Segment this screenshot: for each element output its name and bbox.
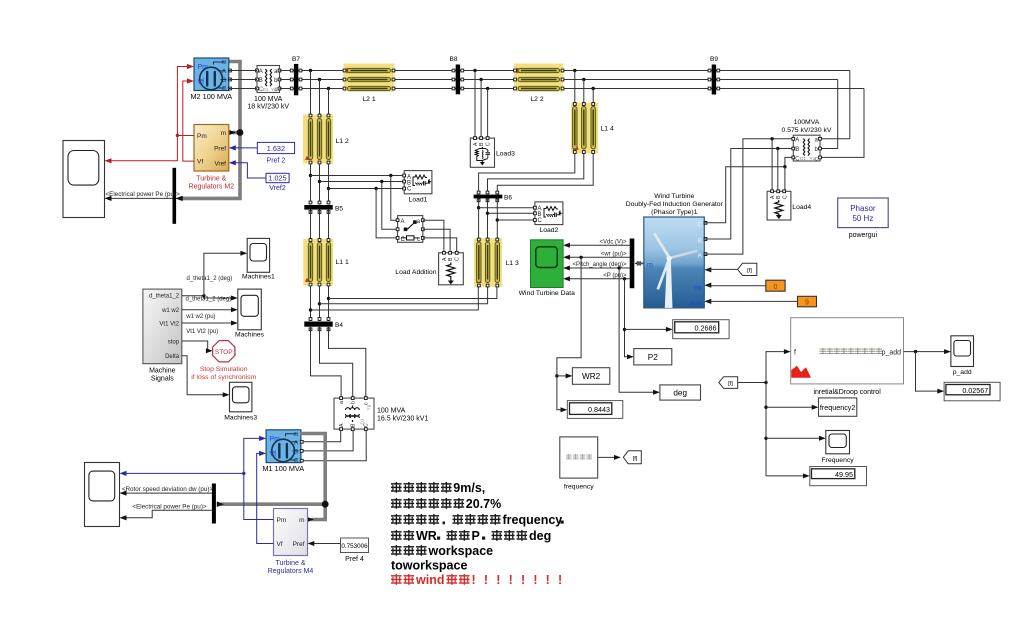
bus selector bar for M2 scope xyxy=(173,168,177,224)
load Load2 xyxy=(534,202,563,234)
svg-text:w1 w2: w1 w2 xyxy=(161,308,180,314)
svg-text:frequency: frequency xyxy=(564,484,594,491)
transformer 100MVA 0.575 kV/230 kV xyxy=(782,119,832,162)
svg-text:100MVA: 100MVA xyxy=(794,119,820,126)
svg-text:L1 4: L1 4 xyxy=(601,126,614,133)
svg-text:B: B xyxy=(479,142,485,146)
svg-text:Wind Turbine Data: Wind Turbine Data xyxy=(519,290,576,297)
constant trip 0 xyxy=(708,280,785,291)
svg-text:0.575 kV/230 kV: 0.575 kV/230 kV xyxy=(782,127,832,134)
svg-text:B: B xyxy=(259,78,263,84)
breaker (3-phase) xyxy=(396,216,424,243)
svg-text:Regulators M4: Regulators M4 xyxy=(268,568,314,575)
wire: blue Pm from M4 to M1 with scope branch xyxy=(120,436,274,520)
wire: Vt1 Vt2 to Machines xyxy=(182,321,238,336)
svg-text:Wind Turbine: Wind Turbine xyxy=(654,193,694,200)
wire: electrical power Pe to scope xyxy=(120,503,212,520)
svg-text:frequency: frequency xyxy=(503,513,563,527)
to-workspace WR2 xyxy=(572,368,609,385)
distributed line L1 3 (vertical) xyxy=(474,238,519,287)
svg-text:Load1: Load1 xyxy=(409,197,428,204)
svg-text:p_add: p_add xyxy=(953,369,972,376)
svg-text:Load Addition: Load Addition xyxy=(395,269,436,276)
svg-text:L1 3: L1 3 xyxy=(506,260,519,267)
svg-text:Yg: Yg xyxy=(366,404,371,410)
svg-text:Delta: Delta xyxy=(165,354,180,360)
svg-text:Machines: Machines xyxy=(235,332,265,339)
wire: B4 to plant transformer xyxy=(311,327,366,398)
powergui Phasor 50 Hz xyxy=(838,198,889,239)
scope rotor speed / electrical power M1 xyxy=(85,463,120,527)
svg-text:A: A xyxy=(770,195,776,199)
bus B5 xyxy=(304,201,343,213)
bus B9 xyxy=(708,56,720,95)
svg-text:Machines3: Machines3 xyxy=(224,415,257,422)
svg-text:A: A xyxy=(259,69,263,75)
svg-text:B5: B5 xyxy=(335,206,343,213)
svg-text:1.025: 1.025 xyxy=(268,174,286,183)
to-workspace deg xyxy=(660,385,701,400)
wire: line C down to wind transformer c xyxy=(820,89,864,158)
svg-text:A: A xyxy=(294,440,298,446)
wire: thick measurement bus from machine M2 m-port down to scope selector xyxy=(176,62,243,201)
wire: DFIG B to transformer xyxy=(704,147,793,239)
svg-text:Pref 2: Pref 2 xyxy=(267,157,286,164)
annotation: Chinese notes xyxy=(391,481,570,587)
line 3: for comparison set frequency xyxy=(391,514,501,525)
scope Machines1 xyxy=(242,238,275,280)
svg-text:trip: trip xyxy=(694,286,703,292)
load Load4 xyxy=(767,190,811,220)
svg-text:Phasor: Phasor xyxy=(850,204,876,213)
wire: wr to Wind Turbine Data xyxy=(563,251,630,259)
svg-text:deg: deg xyxy=(673,389,687,398)
svg-text:C: C xyxy=(783,195,789,199)
svg-text:WR: WR xyxy=(416,529,437,543)
wire: L1 1 down to B4 xyxy=(311,286,329,322)
subsystem Turbine & Regulators M2 xyxy=(189,125,235,191)
scope Machines xyxy=(235,289,265,338)
svg-text:Pref: Pref xyxy=(293,541,305,548)
bus B7 xyxy=(290,56,302,95)
scope Machines3 xyxy=(224,382,257,421)
constant Vref2 (1.025) xyxy=(266,173,289,192)
svg-text:Pm: Pm xyxy=(198,64,209,71)
to-workspace frequency2 xyxy=(819,398,857,416)
svg-text:M1 100 MVA: M1 100 MVA xyxy=(262,464,304,473)
svg-text:w1 w2 (pu): w1 w2 (pu) xyxy=(185,314,215,320)
svg-text:C: C xyxy=(407,187,412,193)
svg-text:a: a xyxy=(339,401,345,404)
transformer 100 MVA 18 kV/230 kV xyxy=(247,66,289,111)
svg-text:B7: B7 xyxy=(292,56,300,63)
wire: m from DFIG to bus selector xyxy=(634,261,644,266)
svg-text:L1 1: L1 1 xyxy=(336,259,349,266)
svg-text:A: A xyxy=(401,219,405,225)
svg-text:49.95: 49.95 xyxy=(835,470,853,479)
svg-text:d_theta1_2 (deg): d_theta1_2 (deg) xyxy=(186,297,232,303)
display 0.2686 xyxy=(673,320,729,339)
wind turbine DFIG block xyxy=(626,193,724,308)
svg-text:Load2: Load2 xyxy=(539,227,558,234)
svg-text:A: A xyxy=(222,69,226,75)
bus selector for wind turbine measurements xyxy=(630,239,635,289)
svg-text:D1: D1 xyxy=(800,156,806,161)
subsystem frequency (measure) xyxy=(560,437,598,491)
svg-text:18 kV/230 kV: 18 kV/230 kV xyxy=(247,104,289,111)
svg-text:B6: B6 xyxy=(504,194,512,201)
svg-text:inretial&Droop control: inretial&Droop control xyxy=(813,389,881,396)
display 0.02567 xyxy=(944,382,1000,401)
node taps to L1 4 xyxy=(573,69,595,103)
svg-text:0.753006: 0.753006 xyxy=(341,543,368,550)
distributed line L1 2 (vertical) xyxy=(303,114,349,164)
svg-text:m: m xyxy=(299,517,304,524)
wire: red Pm from regulator to machine M2 and branch to scope xyxy=(105,64,195,163)
from tag [f] to DFIG xyxy=(708,263,757,275)
transformer 100 MVA 16.5 kV/230 kV1 xyxy=(334,397,428,431)
svg-text:<Vdc (V)>: <Vdc (V)> xyxy=(599,239,627,245)
subsystem Machine Signals xyxy=(143,289,182,382)
svg-text:B8: B8 xyxy=(450,56,458,63)
wire: wr tap to WR2 and display 0.8443 xyxy=(555,256,583,413)
svg-text:B4: B4 xyxy=(335,322,343,329)
wire: machine M2 to transformer 3-phase xyxy=(229,71,258,89)
svg-text:Yg: Yg xyxy=(271,87,277,92)
wire: P to Wind Turbine Data xyxy=(563,273,630,282)
scope Wind Turbine Data xyxy=(519,240,576,297)
wire: d_theta1_2 to Machines and Machines1 xyxy=(182,251,247,303)
wire: p_add output to scope and display xyxy=(904,349,951,394)
svg-text:0.02567: 0.02567 xyxy=(962,386,988,395)
svg-text:stop: stop xyxy=(168,340,180,346)
svg-text:Vf: Vf xyxy=(270,451,277,458)
line 1: wind speed set to 9m/s xyxy=(391,482,452,493)
svg-text:d_theta1_2: d_theta1_2 xyxy=(149,294,180,300)
svg-text:D1: D1 xyxy=(263,87,269,92)
svg-text:Vt1 Vt2: Vt1 Vt2 xyxy=(159,322,179,328)
svg-text:Load4: Load4 xyxy=(792,204,811,211)
svg-text:c: c xyxy=(364,402,370,405)
svg-text:B: B xyxy=(776,195,782,199)
wire: B5 down to L1 1 xyxy=(311,210,329,240)
wire: M1 to plant transformer 3-phase xyxy=(302,431,367,461)
svg-text:f: f xyxy=(794,349,796,356)
svg-text:P: P xyxy=(472,529,480,543)
svg-text:p_add: p_add xyxy=(882,349,902,356)
svg-text:D1: D1 xyxy=(360,418,365,424)
load Load3 xyxy=(470,137,515,168)
svg-text:[f]: [f] xyxy=(728,381,733,387)
svg-text:C: C xyxy=(538,218,543,224)
machine M1 100 MVA xyxy=(262,430,304,473)
svg-text:Doubly-Fed Induction Generator: Doubly-Fed Induction Generator xyxy=(626,201,724,208)
svg-text:C: C xyxy=(697,221,702,228)
svg-text:A: A xyxy=(442,257,448,261)
line 2: wind penetration 20.7% xyxy=(391,498,464,509)
svg-text:[f]: [f] xyxy=(747,268,752,274)
svg-text:Stop Simulation: Stop Simulation xyxy=(200,366,248,373)
distributed line L1 4 (vertical) xyxy=(571,103,614,154)
svg-text:50 Hz: 50 Hz xyxy=(852,214,873,223)
svg-text:Turbine &: Turbine & xyxy=(275,560,305,567)
svg-text:0: 0 xyxy=(774,284,778,291)
bus B8 xyxy=(450,56,464,94)
wire: breaker to Load Addition xyxy=(423,220,457,253)
svg-text:C: C xyxy=(455,257,461,261)
wire: taps down to Load4 xyxy=(772,139,785,192)
line 4: speed WR, power P, pitch deg xyxy=(391,530,414,541)
distributed line L2 1 xyxy=(343,64,395,104)
svg-text:Machines1: Machines1 xyxy=(242,274,275,281)
svg-text:Vf: Vf xyxy=(197,159,203,166)
wire: Pe(pu) from selector to scope xyxy=(105,191,181,201)
wire: DFIG A to transformer xyxy=(704,137,793,254)
svg-text:Pm: Pm xyxy=(277,517,287,524)
svg-text:0.8443: 0.8443 xyxy=(588,405,610,414)
svg-text:Vref2: Vref2 xyxy=(269,185,286,192)
svg-text:C: C xyxy=(486,142,492,146)
subsystem Turbine & Regulators M4 xyxy=(268,509,314,576)
svg-text:B: B xyxy=(294,449,298,455)
svg-text:20.7%: 20.7% xyxy=(466,497,501,511)
svg-text:Pref: Pref xyxy=(214,146,226,153)
svg-text:9m/s,: 9m/s, xyxy=(453,481,485,495)
svg-text:B: B xyxy=(351,423,357,427)
subsystem inretial&Droop control xyxy=(791,318,904,396)
svg-text:(Phasor Type)1: (Phasor Type)1 xyxy=(651,209,698,216)
svg-text:[f]: [f] xyxy=(633,456,638,462)
constant Pref 2 (1.632) xyxy=(257,142,294,164)
svg-text:A: A xyxy=(339,423,345,427)
svg-text:frequency2: frequency2 xyxy=(820,403,856,412)
node taps L1 1 to L1 3 link xyxy=(309,287,497,312)
svg-text:L1 2: L1 2 xyxy=(336,138,349,145)
node taps to Load3 xyxy=(473,69,489,138)
svg-text:Vf: Vf xyxy=(277,541,283,548)
svg-text:Vf: Vf xyxy=(198,79,205,86)
wire: blue Vf from M4 to M1 xyxy=(257,451,274,544)
wire: Vref2 to regulator xyxy=(229,160,266,178)
constant Pref 4 (0.753006) xyxy=(308,538,369,563)
scope p_add xyxy=(951,336,974,376)
svg-text:toworkspace: toworkspace xyxy=(391,559,467,573)
node taps to Load1 xyxy=(309,174,404,190)
svg-text:deg: deg xyxy=(529,529,551,543)
node taps to breaker xyxy=(374,174,397,238)
svg-text:m: m xyxy=(294,432,299,438)
line 5: send to workspace xyxy=(391,545,427,556)
svg-text:B9: B9 xyxy=(710,56,718,63)
svg-text:m: m xyxy=(221,130,226,137)
wire: 230kV phase A main line xyxy=(280,70,850,72)
distributed line L2 2 xyxy=(514,64,564,104)
wire: rotor speed deviation to scope xyxy=(120,486,214,496)
wire: B6 down to L1 3 xyxy=(479,199,498,239)
wire: P tap to display 0.2686 and P2 xyxy=(623,277,673,359)
svg-text:A: A xyxy=(473,142,479,146)
svg-text:<Electrical power Pe (pu)>: <Electrical power Pe (pu)> xyxy=(132,503,207,510)
svg-text:<Rotor speed deviation dw (pu: <Rotor speed deviation dw (pu)> xyxy=(122,486,214,493)
svg-text:powergui: powergui xyxy=(849,232,878,239)
wire: f distribution to droop, frequency2, Frequency, display xyxy=(738,349,826,478)
node taps to L1 2 xyxy=(309,69,330,115)
bus B4 xyxy=(304,318,343,331)
svg-text:Pm: Pm xyxy=(270,436,281,443)
svg-text:m: m xyxy=(647,262,653,269)
wire: line B down to wind transformer b xyxy=(820,80,838,149)
svg-text:Machine: Machine xyxy=(149,368,176,375)
svg-text:100 MVA: 100 MVA xyxy=(377,408,406,415)
distributed line L1 1 (vertical) xyxy=(303,239,349,286)
wire: Pitch tap to deg xyxy=(617,266,660,395)
svg-text:m: m xyxy=(222,60,227,66)
svg-text:c: c xyxy=(815,156,818,162)
svg-text:B: B xyxy=(795,147,799,153)
svg-text:Yg: Yg xyxy=(810,156,816,161)
svg-text:9: 9 xyxy=(805,300,809,307)
svg-text:WR2: WR2 xyxy=(582,372,601,381)
svg-text:B: B xyxy=(698,238,702,245)
bus B6 xyxy=(474,191,513,202)
svg-text:P2: P2 xyxy=(648,353,658,362)
svg-text:Pm: Pm xyxy=(197,133,207,140)
svg-text:A: A xyxy=(698,253,703,260)
svg-text:L2 2: L2 2 xyxy=(530,96,543,103)
svg-text:M2 100 MVA: M2 100 MVA xyxy=(190,92,232,101)
wire: line A down to wind transformer a xyxy=(820,71,850,139)
display 0.8443 xyxy=(567,401,623,419)
svg-text:wind: wind xyxy=(415,573,444,587)
svg-text:d_theta1_2 (deg): d_theta1_2 (deg) xyxy=(187,276,233,282)
svg-text:<Electrical power Pe (pu)>: <Electrical power Pe (pu)> xyxy=(106,191,181,198)
svg-text:<wr (pu)>: <wr (pu)> xyxy=(601,251,627,257)
wire: L1 2 down to B5 xyxy=(311,164,329,205)
wire: stop to STOP block xyxy=(182,341,213,353)
svg-text:if loss of synchronism: if loss of synchronism xyxy=(191,374,256,381)
wire: red Vf from regulator to machine M2 xyxy=(183,78,194,161)
wire: Pitch_angle to Wind Turbine Data xyxy=(563,262,630,271)
wire: Vdc to Wind Turbine Data xyxy=(563,239,630,248)
wire: L1 4 down to B6 xyxy=(479,154,594,194)
wire: thick measurement bus from M1 m-port xyxy=(217,434,329,523)
from tag [f] feeding droop chain xyxy=(719,377,738,389)
bus selector bar for M1 scope xyxy=(212,484,216,524)
svg-text:Signals: Signals xyxy=(151,376,174,383)
svg-text:!!!!!!!!: !!!!!!!! xyxy=(472,573,571,587)
stop simulation block xyxy=(191,341,256,381)
wire: 230kV phase C main line xyxy=(280,88,865,90)
svg-text:Frequency: Frequency xyxy=(822,457,855,464)
svg-text:B: B xyxy=(448,257,454,261)
load Load Addition xyxy=(395,251,463,284)
wire: Delta to Machines3 xyxy=(182,356,230,398)
constant wind 9 xyxy=(708,296,817,307)
svg-text:Vref: Vref xyxy=(214,160,226,167)
svg-text:workspace: workspace xyxy=(428,544,494,558)
svg-text:Load3: Load3 xyxy=(496,150,515,157)
svg-text:b: b xyxy=(351,401,357,404)
wire: DFIG C to transformer xyxy=(704,157,793,222)
scope Frequency xyxy=(822,431,855,465)
svg-text:Turbine &: Turbine & xyxy=(196,176,226,183)
goto tag [f] from frequency xyxy=(598,451,642,464)
load Load1 xyxy=(403,171,432,204)
node taps to Load2 xyxy=(477,206,535,222)
wire: w1 w2 to Machines xyxy=(182,307,238,320)
line 7: red note xyxy=(391,574,414,585)
display 49.95 xyxy=(810,467,867,486)
svg-text:Pref 4: Pref 4 xyxy=(345,556,364,563)
svg-text:100 MVA: 100 MVA xyxy=(254,96,283,103)
wire: 230kV phase B main line xyxy=(280,79,838,81)
to-workspace P2 xyxy=(634,349,672,365)
scope Scope (electrical power M2) xyxy=(63,141,105,218)
svg-text:16.5 kV/230 kV1: 16.5 kV/230 kV1 xyxy=(377,416,428,423)
svg-text:Regulators M2: Regulators M2 xyxy=(189,184,235,191)
svg-text:0.2686: 0.2686 xyxy=(695,324,717,333)
svg-text:L2 1: L2 1 xyxy=(362,96,375,103)
machine M2 100 MVA xyxy=(190,58,232,101)
svg-text:wind: wind xyxy=(689,301,702,307)
svg-text:1.632: 1.632 xyxy=(267,144,285,153)
svg-text:STOP: STOP xyxy=(215,349,233,356)
svg-text:B: B xyxy=(222,78,226,84)
svg-text:Vt1 Vt2 (pu): Vt1 Vt2 (pu) xyxy=(186,329,218,335)
svg-text:A: A xyxy=(795,138,799,144)
wire: Pref2 to regulator xyxy=(229,145,257,150)
